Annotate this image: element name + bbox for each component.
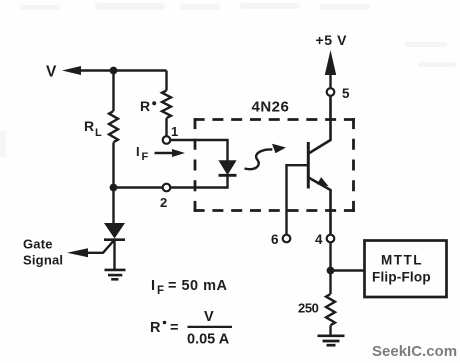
- svg-text:6: 6: [271, 232, 279, 247]
- pin 4: [315, 232, 334, 247]
- light transfer arrow: [245, 144, 287, 169]
- svg-text:4N26: 4N26: [252, 99, 290, 116]
- svg-text:=: =: [170, 320, 178, 336]
- node junction top: [110, 67, 118, 75]
- optocoupler dashed box: [194, 118, 355, 212]
- phototransistor emitter with arrow: [309, 177, 331, 234]
- label Gate Signal: [23, 236, 63, 267]
- svg-text:250: 250: [298, 301, 319, 316]
- pin 5: [327, 86, 350, 101]
- resistor 250: [326, 271, 335, 336]
- label IF = 50 mA: [151, 278, 228, 297]
- label R* = V / 0.05 A formula: [150, 309, 232, 348]
- svg-text:= 50 mA: = 50 mA: [168, 278, 228, 294]
- svg-text:Flip-Flop: Flip-Flop: [372, 270, 431, 285]
- svg-text:Signal: Signal: [23, 253, 63, 268]
- svg-text:F: F: [142, 151, 149, 163]
- svg-text:4: 4: [315, 232, 323, 247]
- svg-text:I: I: [151, 278, 155, 294]
- svg-text:Gate: Gate: [23, 236, 53, 251]
- wire LED cathode to pin 2: [171, 175, 228, 187]
- wire pin4 down to node: [329, 243, 331, 271]
- phototransistor Q2 base bar: [307, 142, 310, 189]
- wire pin2 to left rail: [114, 186, 163, 188]
- ground 2: [318, 336, 345, 345]
- svg-text:1: 1: [171, 124, 178, 139]
- wire node to MTTL box: [331, 269, 364, 271]
- svg-text:V: V: [46, 64, 57, 81]
- wire top rail V to R* corner: [80, 69, 167, 71]
- svg-text:5: 5: [342, 86, 350, 101]
- +5V supply arrow: [316, 32, 348, 88]
- MTTL flip-flop box U2: [365, 241, 447, 298]
- svg-text:0.05 A: 0.05 A: [187, 332, 230, 348]
- pin 2: [160, 184, 170, 210]
- resistor R*: [162, 71, 171, 137]
- wire pin1 to LED anode: [171, 140, 228, 161]
- resistor RL: [109, 71, 118, 188]
- node junction output: [327, 267, 335, 275]
- node V arrow: [46, 64, 81, 81]
- svg-text:MTTL: MTTL: [381, 253, 423, 268]
- phototransistor base lead to pin 6: [287, 165, 309, 235]
- pin 1: [163, 124, 179, 144]
- SCR Q1: [67, 223, 125, 257]
- svg-text:L: L: [95, 127, 102, 139]
- wire down to SCR: [112, 188, 114, 224]
- svg-text:2: 2: [160, 195, 167, 210]
- node junction bottom-left: [110, 184, 118, 192]
- label IF current arrow: [136, 144, 185, 163]
- svg-text:F: F: [157, 285, 164, 297]
- svg-text:R: R: [140, 98, 150, 114]
- wire SCR cathode to ground: [113, 240, 115, 270]
- svg-text:R: R: [84, 118, 94, 134]
- svg-text:R: R: [150, 320, 161, 336]
- pin 6: [271, 232, 290, 247]
- ground 1: [105, 270, 126, 279]
- svg-text:SeekIC.com: SeekIC.com: [372, 343, 457, 360]
- svg-text:I: I: [136, 144, 140, 159]
- LED D1: [219, 161, 237, 176]
- phototransistor collector: [309, 96, 331, 154]
- svg-text:+5 V: +5 V: [316, 32, 348, 48]
- svg-text:V: V: [204, 309, 214, 325]
